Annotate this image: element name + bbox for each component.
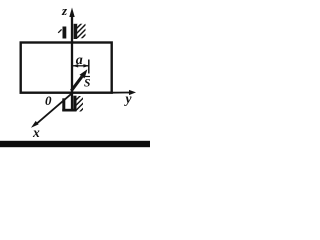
top bearing left block (63, 27, 67, 39)
svg-text:a: a (76, 53, 83, 68)
plate rectangle (21, 43, 112, 93)
svg-text:0: 0 (45, 93, 52, 108)
x-axis (37, 94, 72, 124)
bottom bearing: cup left wall (62, 98, 65, 111)
force arrow S (71, 77, 82, 91)
svg-text:S: S (84, 78, 90, 90)
z-axis arrowhead (69, 8, 74, 18)
y-axis extension (111, 92, 131, 94)
dimension a: line with arrowheads (73, 65, 89, 67)
svg-text:y: y (124, 91, 133, 106)
bottom bearing: right wall (73, 96, 76, 112)
top bearing right block (74, 24, 78, 39)
extension tick at load point (88, 60, 90, 74)
shaft (vertical axle through plate) (71, 16, 73, 110)
svg-text:x: x (32, 125, 40, 140)
top bearing left hatch tick (58, 29, 61, 32)
svg-text:z: z (61, 3, 68, 18)
bottom bearing: cup bottom (62, 109, 76, 112)
bottom separator bar (0, 141, 150, 147)
